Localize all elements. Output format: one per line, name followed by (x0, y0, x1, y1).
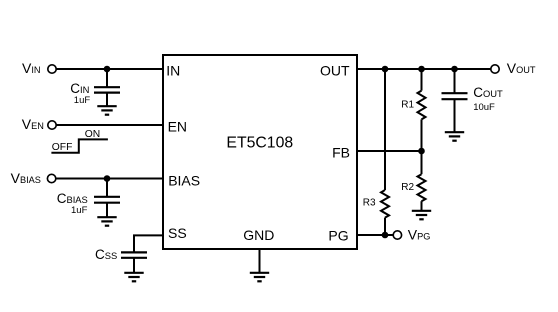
node junction OUT/COUT (451, 66, 458, 73)
svg-text:BIAS: BIAS (168, 172, 200, 188)
svg-text:FB: FB (332, 144, 350, 160)
svg-text:R2: R2 (401, 182, 414, 193)
svg-text:OFF: OFF (52, 142, 73, 153)
svg-text:ON: ON (85, 129, 100, 140)
wire OUT pin to VOUT (357, 68, 491, 70)
svg-text:ET5C108: ET5C108 (226, 134, 293, 151)
node junction PG/R3 (382, 232, 389, 239)
label R3 (363, 197, 376, 208)
wire VBIAS to BIAS pin (56, 178, 163, 180)
pin PG label (328, 227, 348, 243)
enable step waveform ON/OFF (51, 129, 108, 153)
svg-text:GND: GND (243, 227, 274, 243)
svg-text:OUT: OUT (320, 63, 350, 79)
svg-text:SS: SS (168, 225, 187, 241)
pin SS label (168, 225, 187, 241)
svg-text:CIN: CIN (70, 81, 89, 96)
wire SS pin to C_SS (134, 235, 163, 252)
label R1 (401, 100, 414, 111)
wire VEN to EN pin (56, 124, 163, 126)
ground for GND pin (250, 273, 269, 282)
pin EN label (168, 118, 187, 134)
pin GND label (243, 227, 274, 243)
node junction FB/R1/R2 (418, 148, 425, 155)
svg-text:1uF: 1uF (74, 95, 91, 106)
pin OUT label (320, 63, 350, 79)
svg-text:CBIAS: CBIAS (57, 191, 88, 206)
node junction OUT/R3 (382, 66, 389, 73)
label R2 (401, 182, 414, 193)
svg-text:R3: R3 (363, 197, 376, 208)
node junction on BIAS wire (104, 175, 111, 182)
ground for C_SS (124, 273, 143, 282)
node junction on VIN wire (104, 66, 111, 73)
terminal VBIAS (11, 170, 56, 186)
value label C_IN 1uF (70, 81, 90, 106)
value label C_OUT 10uF (473, 85, 503, 113)
capacitor C_BIAS (94, 179, 120, 218)
terminal VPG (393, 227, 430, 243)
ground for C_IN (97, 106, 116, 115)
resistor R2 (418, 151, 426, 211)
wire GND pin down (259, 249, 261, 273)
terminal VOUT (491, 60, 536, 76)
svg-text:CSS: CSS (95, 247, 117, 262)
ground for C_BIAS (97, 217, 116, 226)
svg-text:IN: IN (166, 63, 180, 79)
ground for C_OUT (445, 132, 464, 141)
wire FB pin to divider (357, 150, 422, 152)
svg-text:10uF: 10uF (473, 102, 495, 113)
resistor R1 (418, 69, 426, 151)
svg-text:EN: EN (168, 118, 187, 134)
ground for R2 (412, 211, 431, 220)
svg-text:COUT: COUT (473, 85, 503, 100)
svg-text:1uF: 1uF (71, 205, 88, 216)
pin IN label (166, 63, 180, 79)
pin BIAS label (168, 172, 200, 188)
terminal VEN (22, 116, 56, 132)
capacitor C_SS (121, 252, 147, 272)
wire PG pin to VPG (357, 234, 393, 236)
svg-text:R1: R1 (401, 100, 414, 111)
resistor R3 pull-up from OUT to PG (381, 69, 389, 235)
svg-text:PG: PG (328, 227, 348, 243)
terminal VIN (22, 60, 56, 76)
pin FB label (332, 144, 350, 160)
node junction OUT/R1 (418, 66, 425, 73)
wire VIN to IN pin (56, 68, 163, 70)
capacitor C_IN (94, 69, 120, 106)
capacitor C_OUT (442, 69, 468, 132)
value label C_SS (95, 247, 117, 262)
value label C_BIAS 1uF (57, 191, 88, 216)
op-amp U1 ET5C108 regulator body (163, 55, 357, 249)
